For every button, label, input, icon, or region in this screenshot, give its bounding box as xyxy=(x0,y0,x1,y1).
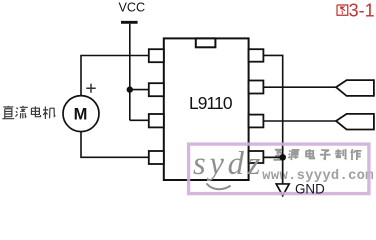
pin R3 xyxy=(249,115,264,128)
wire pin R1 to GND rail xyxy=(263,55,282,184)
junction dot VCC / pin L2 wire xyxy=(127,86,133,92)
watermark box border xyxy=(189,144,369,194)
wire VCC stem xyxy=(129,24,131,121)
motor M1 circle xyxy=(63,96,99,132)
ground symbol overdraw xyxy=(276,184,289,196)
svg-text:GND: GND xyxy=(295,182,325,197)
wire pin R2 to terminal J1 xyxy=(263,86,336,88)
svg-text:VCC: VCC xyxy=(119,1,146,15)
pin L4 xyxy=(149,151,164,164)
watermark script swash xyxy=(207,184,230,189)
ground symbol xyxy=(276,184,289,196)
svg-text:sydz: sydz xyxy=(193,146,264,182)
pin L1 xyxy=(149,49,164,62)
IC notch xyxy=(196,38,216,47)
pin R1 xyxy=(249,49,264,62)
terminal J2 xyxy=(336,114,374,130)
plus polarity mark xyxy=(86,84,95,93)
wire VCC corner to pin L3 xyxy=(130,119,149,121)
IC U1 body L9110 xyxy=(164,38,249,180)
label 直流电机 (DC motor, drawn strokes) xyxy=(2,106,55,119)
wire pin R4 to GND rail xyxy=(263,156,282,158)
wire motor minus to pin L4 xyxy=(81,132,149,158)
svg-text:L9110: L9110 xyxy=(189,93,233,113)
watermark script text sydz xyxy=(193,146,264,182)
wire motor plus to pin L1 xyxy=(81,56,149,96)
pin R2 xyxy=(249,81,264,94)
svg-text:3-1: 3-1 xyxy=(349,1,375,21)
VCC power bar xyxy=(121,21,138,24)
terminal J1 xyxy=(336,80,374,96)
junction dot GND rail overdraw xyxy=(280,154,286,160)
pin R4 xyxy=(249,151,264,163)
wire pin R3 to terminal J2 xyxy=(263,120,336,122)
pin L3 xyxy=(149,114,164,127)
pin L2 xyxy=(149,83,164,96)
svg-text:M: M xyxy=(74,106,88,124)
wire GND rail overdraw xyxy=(263,145,282,184)
watermark text 圣源电子制作 (gray CJK, drawn as strokes) xyxy=(273,149,361,160)
junction dot GND rail xyxy=(280,154,286,160)
wire junction to pin L2 xyxy=(130,89,149,91)
figure label 图3-1 (red) xyxy=(337,5,348,15)
